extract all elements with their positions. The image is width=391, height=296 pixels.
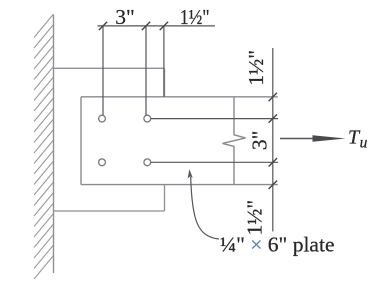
svg-text:3": 3" (115, 5, 135, 29)
svg-text:3": 3" (247, 131, 271, 151)
svg-text:1½": 1½" (244, 50, 268, 86)
svg-text:Tu: Tu (348, 126, 368, 151)
svg-text:1½": 1½" (242, 200, 266, 236)
svg-text:1½": 1½" (180, 5, 210, 29)
svg-text:¼" × 6" plate: ¼" × 6" plate (220, 233, 334, 257)
